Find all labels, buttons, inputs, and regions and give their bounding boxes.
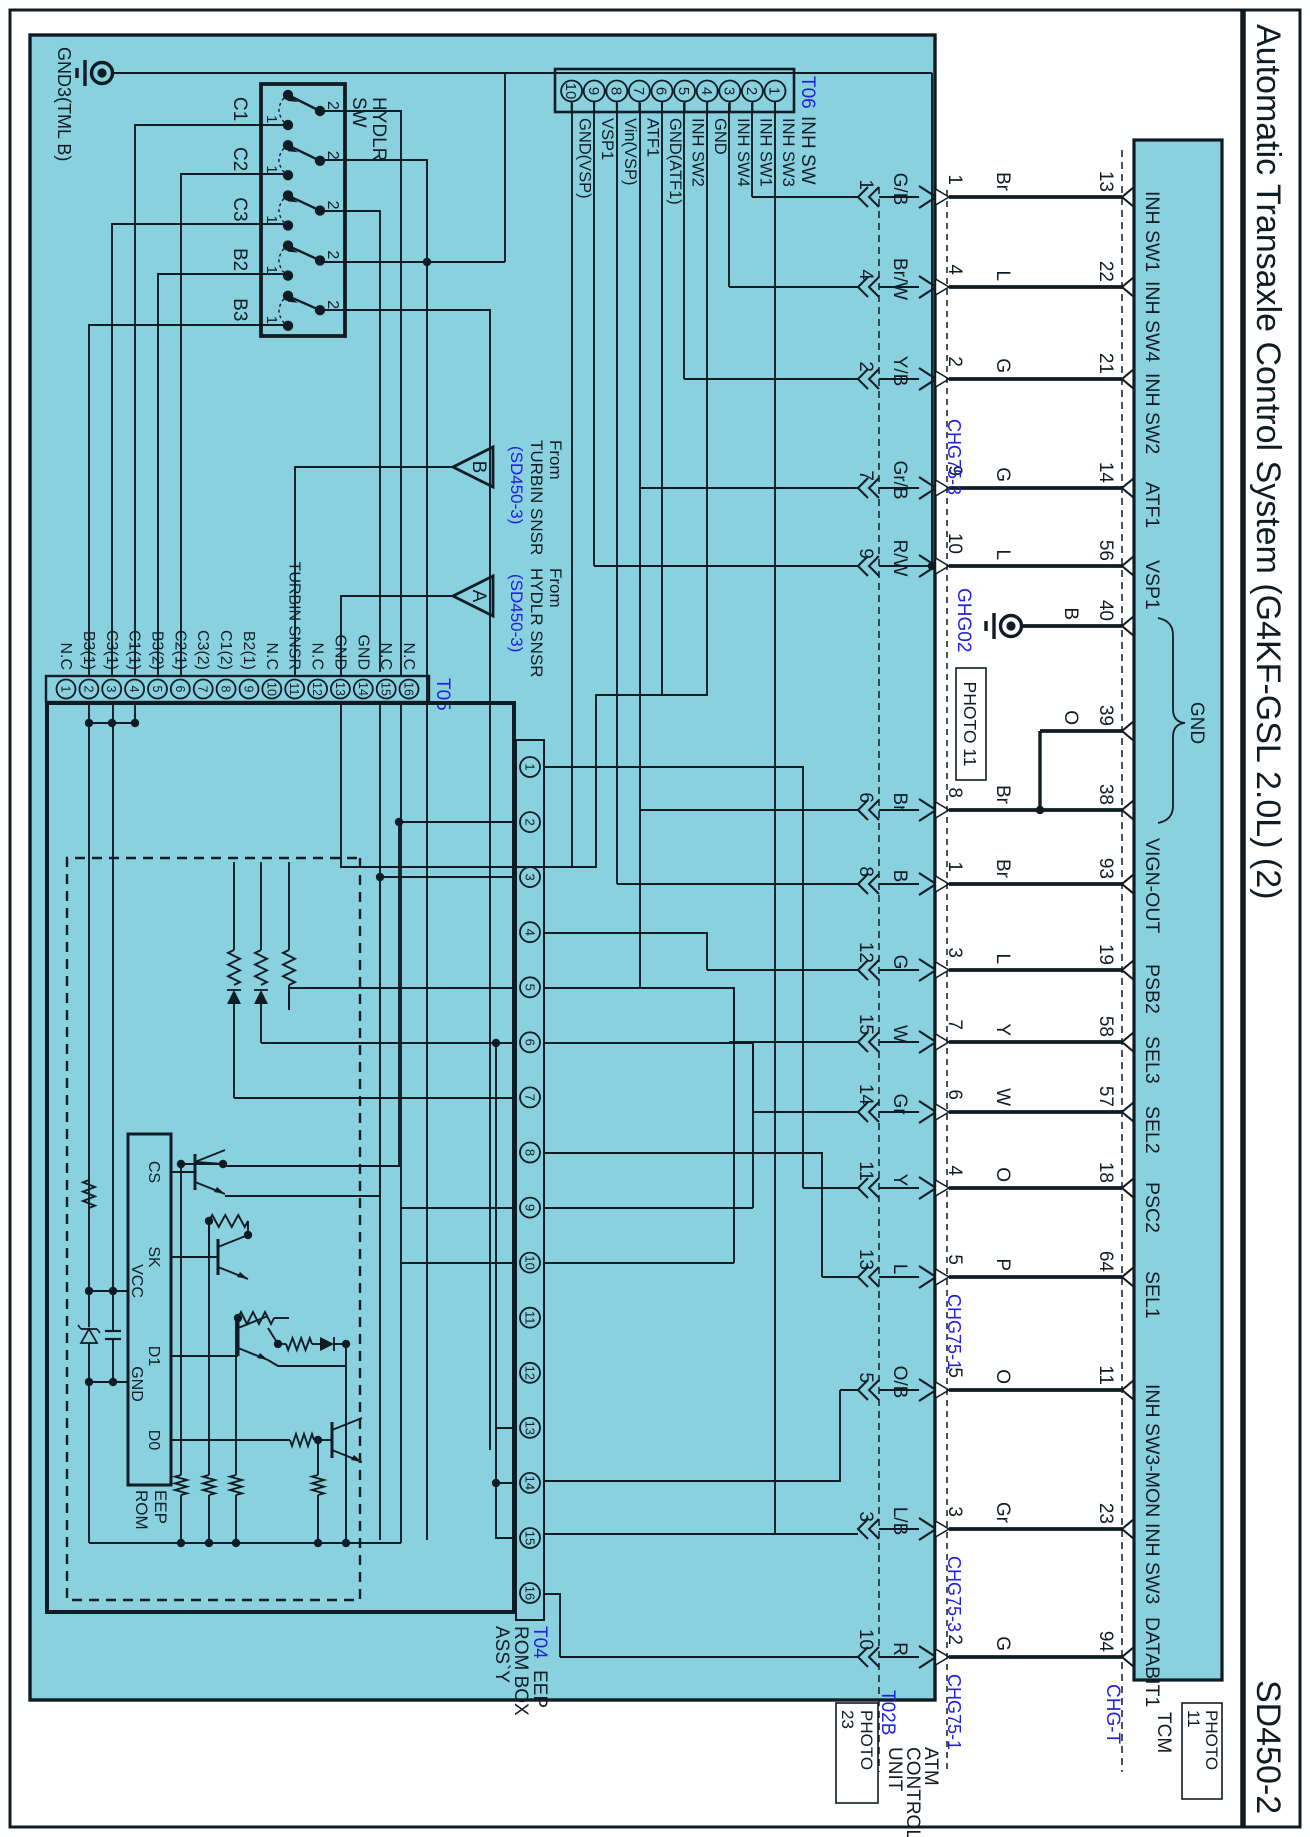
svg-text:G: G bbox=[889, 955, 910, 970]
wire INH SW3 bus bbox=[774, 103, 776, 1534]
svg-text:B2: B2 bbox=[229, 248, 250, 271]
svg-text:13: 13 bbox=[333, 682, 347, 696]
wire INH SW3-MON to T04 run bbox=[544, 1390, 840, 1481]
wire 39 to wire 38 junction bbox=[1036, 731, 1044, 814]
svg-text:7: 7 bbox=[630, 87, 647, 95]
ground label GHG02 bbox=[953, 588, 974, 652]
svg-text:11: 11 bbox=[1095, 1365, 1116, 1385]
svg-text:3: 3 bbox=[855, 1511, 876, 1522]
svg-text:INH SW1: INH SW1 bbox=[1141, 191, 1163, 272]
svg-text:2: 2 bbox=[324, 250, 341, 259]
svg-text:C1(2): C1(2) bbox=[217, 630, 234, 670]
svg-text:VCC: VCC bbox=[128, 1264, 145, 1298]
page number SD450-2 bbox=[1249, 1680, 1287, 1814]
T02B dashed line bbox=[878, 187, 880, 1772]
T05 header bbox=[432, 678, 453, 711]
wire T06 GND run bbox=[341, 103, 707, 867]
svg-text:12: 12 bbox=[522, 1366, 537, 1380]
svg-text:SEL1: SEL1 bbox=[1141, 1271, 1163, 1319]
EEP ROM chip box bbox=[128, 1134, 171, 1485]
rail B (T05 pin3 line) bbox=[112, 703, 114, 1382]
TCM-to-harness wires bbox=[949, 197, 1122, 1657]
svg-text:INH SW2: INH SW2 bbox=[689, 118, 707, 187]
svg-text:N.C: N.C bbox=[309, 642, 326, 670]
svg-text:23: 23 bbox=[1095, 1503, 1116, 1524]
svg-text:(SD450-3): (SD450-3) bbox=[507, 574, 526, 652]
svg-text:1: 1 bbox=[263, 316, 280, 324]
svg-text:11: 11 bbox=[287, 683, 301, 696]
svg-text:Y: Y bbox=[889, 1174, 910, 1187]
svg-text:CHG-T: CHG-T bbox=[1102, 1684, 1123, 1745]
svg-text:21: 21 bbox=[1095, 353, 1116, 374]
svg-text:3: 3 bbox=[104, 686, 118, 693]
svg-text:Vin(VSP): Vin(VSP) bbox=[621, 118, 639, 186]
svg-text:L: L bbox=[992, 549, 1013, 560]
TCM pin function labels bbox=[1141, 191, 1163, 1707]
resistor R7 on rail A bbox=[83, 1180, 95, 1208]
svg-text:58: 58 bbox=[1095, 1016, 1116, 1037]
wire PSB2 to T04 pin4 bbox=[544, 933, 707, 970]
svg-text:O: O bbox=[992, 1369, 1013, 1384]
svg-text:P: P bbox=[992, 1258, 1013, 1271]
svg-text:From: From bbox=[546, 440, 565, 480]
HYDLR SW box bbox=[261, 84, 345, 336]
svg-text:94: 94 bbox=[1095, 1631, 1116, 1653]
connector label CHG-T bbox=[1102, 1684, 1123, 1745]
svg-text:22: 22 bbox=[1095, 261, 1116, 282]
wire INH SW1 run bbox=[751, 103, 753, 197]
rail D0 pulldown bbox=[312, 1440, 324, 1547]
svg-text:R/W: R/W bbox=[889, 540, 910, 577]
svg-text:2: 2 bbox=[324, 151, 341, 160]
svg-text:11: 11 bbox=[1184, 1710, 1203, 1728]
svg-text:C3: C3 bbox=[229, 197, 250, 221]
svg-text:10: 10 bbox=[264, 682, 278, 696]
svg-text:6: 6 bbox=[855, 792, 876, 803]
svg-text:38: 38 bbox=[1095, 784, 1116, 805]
svg-text:N.C: N.C bbox=[263, 642, 280, 670]
svg-text:2: 2 bbox=[522, 818, 537, 825]
svg-text:1: 1 bbox=[263, 215, 280, 223]
svg-text:Y/B: Y/B bbox=[889, 356, 910, 387]
svg-text:ATF1: ATF1 bbox=[1141, 482, 1163, 528]
T05 pin4 internal stub bbox=[134, 703, 136, 723]
wire GND(VSP) run bbox=[571, 103, 573, 867]
HYDLR SW B2 pin2 wire bbox=[322, 261, 505, 263]
svg-text:VIGN-OUT: VIGN-OUT bbox=[1141, 838, 1163, 933]
wire color codes (TCM side) bbox=[992, 172, 1081, 1651]
HYDLR SW C3 pin2 wire bbox=[325, 211, 380, 1540]
svg-text:D1: D1 bbox=[145, 1346, 162, 1367]
svg-text:10: 10 bbox=[522, 1255, 537, 1269]
svg-text:INH SW4: INH SW4 bbox=[734, 118, 752, 187]
svg-text:39: 39 bbox=[1095, 705, 1116, 726]
photo reference 11 box bbox=[956, 668, 986, 780]
wire GND(ATF1) run bbox=[661, 103, 663, 695]
svg-text:1: 1 bbox=[522, 763, 537, 770]
svg-text:G: G bbox=[992, 358, 1013, 373]
svg-text:PHOTO: PHOTO bbox=[1202, 1710, 1221, 1770]
svg-text:12: 12 bbox=[855, 942, 876, 963]
svg-text:3: 3 bbox=[522, 873, 537, 880]
svg-text:T05: T05 bbox=[432, 678, 453, 711]
triangle B labels bbox=[507, 440, 565, 555]
svg-text:SK: SK bbox=[145, 1246, 162, 1268]
svg-text:2: 2 bbox=[743, 87, 760, 95]
wire Vin(VSP) run bbox=[616, 103, 618, 884]
svg-text:9: 9 bbox=[242, 686, 256, 693]
triangle B wire bbox=[295, 467, 453, 676]
T06 connector box bbox=[555, 69, 794, 112]
svg-text:GND: GND bbox=[1186, 702, 1207, 744]
svg-text:GND: GND bbox=[711, 118, 729, 155]
GND3 net wiring bbox=[113, 73, 936, 570]
ground label GND3(TML B) bbox=[54, 47, 74, 161]
svg-text:6: 6 bbox=[522, 1039, 537, 1046]
capacitor C1 bbox=[105, 1331, 121, 1339]
wire VSP1 run bbox=[593, 103, 595, 566]
svg-text:O: O bbox=[992, 1167, 1013, 1182]
svg-text:14: 14 bbox=[356, 682, 370, 696]
Q3 emitter line bbox=[268, 1360, 346, 1366]
svg-text:3: 3 bbox=[720, 87, 737, 95]
bus line bbox=[89, 1542, 401, 1544]
EEPROM dashed enclosure bbox=[67, 858, 360, 1600]
wire ATF1 / VIGN run bbox=[639, 103, 641, 988]
wire SEL1 to T04 pin8 bbox=[544, 1153, 822, 1277]
svg-text:SD450-2: SD450-2 bbox=[1249, 1680, 1287, 1814]
svg-text:PSB2: PSB2 bbox=[1141, 964, 1163, 1014]
svg-text:2: 2 bbox=[855, 361, 876, 372]
triangle A wire bbox=[341, 596, 453, 676]
svg-text:13: 13 bbox=[855, 1249, 876, 1270]
svg-text:TURBIN SNSR: TURBIN SNSR bbox=[527, 440, 546, 555]
T04 pin2 internal drop bbox=[225, 818, 516, 1166]
svg-text:INH SW: INH SW bbox=[797, 116, 818, 185]
TCM GND group brace bbox=[1158, 618, 1207, 823]
rail A (T05 pin2 line) bbox=[88, 703, 90, 1543]
T04 pin9 internal drop bbox=[401, 1207, 516, 1209]
Q3 base resistor bbox=[234, 1312, 289, 1324]
svg-text:PHOTO: PHOTO bbox=[857, 1710, 876, 1770]
svg-text:Br: Br bbox=[992, 859, 1013, 879]
svg-text:ROM BOX: ROM BOX bbox=[510, 1626, 531, 1716]
svg-text:1: 1 bbox=[855, 179, 876, 190]
photo reference 23 box bbox=[836, 1703, 878, 1803]
transistor Q3 (D1) bbox=[171, 1316, 282, 1360]
HYDLR SW label bbox=[348, 97, 389, 161]
svg-text:O: O bbox=[1060, 710, 1081, 725]
HYDLR SW switches bbox=[229, 90, 341, 331]
svg-text:A: A bbox=[468, 590, 489, 603]
svg-text:1: 1 bbox=[944, 174, 965, 185]
connector label CHG75-1 (bottom) bbox=[944, 1674, 964, 1750]
svg-text:1: 1 bbox=[766, 87, 783, 95]
svg-text:L/B: L/B bbox=[889, 1507, 910, 1536]
GND pin stub bbox=[85, 1378, 128, 1386]
wire SEL3 to T04 pin5 bbox=[544, 988, 734, 1263]
svg-text:2: 2 bbox=[324, 101, 341, 110]
svg-text:16: 16 bbox=[402, 682, 416, 696]
svg-text:L: L bbox=[992, 270, 1013, 281]
svg-text:9: 9 bbox=[585, 87, 602, 95]
rail CS pulldown bbox=[175, 1160, 225, 1547]
sense resistors and diodes bbox=[227, 862, 295, 1098]
svg-text:10: 10 bbox=[562, 83, 579, 100]
transistor Q1 (CS) bbox=[171, 1150, 227, 1194]
svg-text:8: 8 bbox=[219, 686, 233, 693]
svg-text:15: 15 bbox=[855, 1014, 876, 1035]
T04 pin6 internal drop bbox=[261, 1039, 516, 1047]
harness field (cyan) bbox=[30, 35, 935, 1700]
svg-text:B3(2): B3(2) bbox=[148, 631, 165, 670]
svg-text:SW: SW bbox=[348, 97, 369, 128]
T02B connector chevrons and wire codes bbox=[855, 173, 910, 1667]
HYDLR SW C2 pin2 wire bbox=[325, 160, 431, 1540]
svg-text:GND: GND bbox=[331, 634, 348, 670]
svg-text:13: 13 bbox=[1095, 171, 1116, 192]
T04 pin10 internal drop bbox=[401, 1262, 516, 1264]
svg-text:O/B: O/B bbox=[889, 1366, 910, 1399]
svg-text:2: 2 bbox=[81, 686, 95, 693]
svg-text:L: L bbox=[889, 1264, 910, 1275]
svg-text:Br: Br bbox=[992, 785, 1013, 805]
svg-text:8: 8 bbox=[855, 866, 876, 877]
svg-text:INH SW2: INH SW2 bbox=[1141, 373, 1163, 454]
off-page triangle A bbox=[453, 576, 493, 616]
svg-text:ROM: ROM bbox=[132, 1490, 151, 1530]
svg-text:5: 5 bbox=[675, 87, 692, 95]
svg-text:57: 57 bbox=[1095, 1086, 1116, 1107]
wire INH SW4 run bbox=[728, 103, 730, 287]
svg-text:PHOTO 11: PHOTO 11 bbox=[960, 682, 980, 767]
svg-text:B: B bbox=[1060, 607, 1081, 620]
svg-text:Gr: Gr bbox=[992, 1502, 1013, 1524]
T04 pins 13-15 internal bridge bbox=[492, 1428, 516, 1538]
off-page triangle B bbox=[453, 447, 493, 487]
svg-text:Gr/B: Gr/B bbox=[889, 460, 910, 499]
TCM connector box bbox=[1134, 140, 1222, 1680]
svg-text:DATABIT1: DATABIT1 bbox=[1141, 1617, 1163, 1707]
connector label CHG75-3 (upper) bbox=[944, 419, 964, 495]
svg-text:14: 14 bbox=[1095, 462, 1116, 484]
svg-text:D0: D0 bbox=[145, 1430, 162, 1451]
svg-text:GND: GND bbox=[354, 634, 371, 670]
T05 connector box bbox=[46, 676, 429, 702]
HYDLR SW pin1 wires bbox=[89, 125, 283, 676]
svg-text:From: From bbox=[546, 568, 565, 608]
connector label CHG75-3 (lower) bbox=[944, 1556, 964, 1632]
svg-text:7: 7 bbox=[196, 686, 210, 693]
svg-text:G/B: G/B bbox=[889, 173, 910, 206]
title text bbox=[1249, 24, 1287, 899]
T06 pins and labels bbox=[561, 81, 797, 205]
T04 label block bbox=[491, 1626, 550, 1716]
wire INH SW2 run bbox=[683, 103, 685, 379]
svg-text:40: 40 bbox=[1095, 600, 1116, 621]
T06 header bbox=[797, 76, 818, 185]
HYDLR SW B3 pin2 wire bbox=[325, 310, 490, 1450]
svg-text:13: 13 bbox=[522, 1421, 537, 1435]
resistor R6 (D0) bbox=[171, 1434, 322, 1446]
HYDLR SW C1 pin2 wire bbox=[325, 111, 401, 676]
svg-text:HYDLR: HYDLR bbox=[368, 97, 389, 161]
harness edge connector chevrons bbox=[919, 174, 965, 1668]
svg-text:5: 5 bbox=[522, 984, 537, 991]
svg-text:Br: Br bbox=[992, 172, 1013, 192]
svg-text:B2(1): B2(1) bbox=[240, 631, 257, 670]
harness wire drops bbox=[544, 197, 858, 1657]
svg-text:5: 5 bbox=[150, 686, 164, 693]
TCM pin numbers bbox=[1095, 171, 1116, 1653]
T04 strip pins bbox=[520, 757, 540, 1603]
svg-text:11: 11 bbox=[522, 1311, 537, 1325]
TCM unit label bbox=[1153, 1712, 1174, 1753]
ground GND3 symbol bbox=[77, 60, 113, 86]
T04 connector strip bbox=[516, 740, 544, 1620]
svg-text:B: B bbox=[468, 461, 489, 474]
svg-text:L: L bbox=[992, 953, 1013, 964]
svg-text:(SD450-3): (SD450-3) bbox=[507, 446, 526, 524]
svg-text:UNIT: UNIT bbox=[884, 1747, 905, 1792]
svg-text:SEL3: SEL3 bbox=[1141, 1036, 1163, 1084]
connector label CHG75-1 (mid) bbox=[944, 1294, 964, 1370]
svg-text:PSC2: PSC2 bbox=[1141, 1182, 1163, 1233]
svg-text:GND: GND bbox=[128, 1366, 145, 1402]
svg-text:N.C: N.C bbox=[57, 642, 74, 670]
svg-text:1: 1 bbox=[59, 686, 73, 693]
svg-text:Automatic Transaxle Control Sy: Automatic Transaxle Control System (G4KF… bbox=[1249, 24, 1287, 899]
svg-text:INH SW4: INH SW4 bbox=[1141, 281, 1163, 362]
svg-text:T06: T06 bbox=[797, 76, 818, 109]
svg-text:93: 93 bbox=[1095, 858, 1116, 879]
svg-text:10: 10 bbox=[855, 1629, 876, 1650]
svg-text:T02B: T02B bbox=[877, 1690, 898, 1735]
ATM control unit label bbox=[884, 1747, 941, 1837]
svg-text:15: 15 bbox=[522, 1531, 537, 1545]
svg-text:INH SW3: INH SW3 bbox=[779, 118, 797, 187]
svg-text:N.C: N.C bbox=[400, 642, 417, 670]
svg-text:4: 4 bbox=[698, 87, 715, 95]
svg-text:7: 7 bbox=[522, 1094, 537, 1101]
TCM pin chevrons bbox=[1122, 187, 1134, 1667]
svg-text:W: W bbox=[889, 1025, 910, 1043]
svg-text:ASS`Y: ASS`Y bbox=[491, 1626, 512, 1683]
connector label T02B bbox=[877, 1690, 898, 1735]
svg-text:9: 9 bbox=[522, 1204, 537, 1211]
svg-text:EEP: EEP bbox=[151, 1490, 170, 1524]
T04 pin9 external stub bbox=[544, 1207, 753, 1209]
svg-text:G: G bbox=[992, 467, 1013, 482]
svg-text:GND(ATF1): GND(ATF1) bbox=[666, 118, 684, 205]
transistor Q4 (D0) bbox=[318, 1418, 362, 1462]
resistor R5 and diode D5 (D1 chain) bbox=[278, 1337, 350, 1351]
svg-text:64: 64 bbox=[1095, 1251, 1116, 1273]
svg-text:2: 2 bbox=[324, 201, 341, 210]
CHG75 edge dashed line bbox=[946, 190, 948, 1772]
svg-text:INH SW3-MON: INH SW3-MON bbox=[1141, 1384, 1163, 1517]
ground GHG02 symbol bbox=[986, 613, 1022, 639]
svg-text:23: 23 bbox=[838, 1710, 857, 1729]
svg-text:EEP: EEP bbox=[529, 1670, 550, 1708]
Q4 emitter line bbox=[346, 1344, 362, 1543]
T04 EEPROM box bbox=[47, 703, 514, 1612]
EEP ROM chip labels bbox=[128, 1161, 170, 1530]
svg-text:1: 1 bbox=[263, 165, 280, 173]
svg-text:CS: CS bbox=[145, 1161, 162, 1183]
svg-text:15: 15 bbox=[379, 682, 393, 696]
svg-text:14: 14 bbox=[522, 1476, 537, 1490]
svg-text:INH SW3: INH SW3 bbox=[1141, 1523, 1163, 1604]
svg-text:8: 8 bbox=[607, 87, 624, 95]
svg-text:1: 1 bbox=[263, 115, 280, 123]
rail D1 pulldown bbox=[230, 1318, 242, 1547]
photo reference 11 box (TCM) bbox=[1182, 1703, 1222, 1799]
triangle A labels bbox=[507, 568, 565, 678]
svg-text:6: 6 bbox=[173, 686, 187, 693]
svg-text:Br/W: Br/W bbox=[889, 258, 910, 300]
zener diode Z1 bbox=[78, 1325, 100, 1343]
svg-text:W: W bbox=[992, 1088, 1013, 1106]
bus top link bbox=[342, 703, 401, 1547]
svg-text:11: 11 bbox=[855, 1161, 876, 1181]
T04 pin3 internal drop bbox=[225, 873, 516, 1196]
T04 pin7 internal drop bbox=[234, 1097, 516, 1099]
svg-text:6: 6 bbox=[653, 87, 670, 95]
svg-text:Y: Y bbox=[992, 1023, 1013, 1036]
svg-text:14: 14 bbox=[855, 1084, 876, 1106]
svg-text:G: G bbox=[992, 1636, 1013, 1651]
svg-text:SEL2: SEL2 bbox=[1141, 1106, 1163, 1154]
wire VSP1 edge segment bbox=[919, 565, 932, 567]
svg-text:B: B bbox=[889, 870, 910, 883]
svg-text:C2: C2 bbox=[229, 147, 250, 171]
TCM edge dashed line bbox=[1121, 150, 1123, 1772]
svg-text:7: 7 bbox=[855, 470, 876, 481]
svg-text:T04: T04 bbox=[529, 1626, 550, 1659]
svg-text:B3: B3 bbox=[229, 298, 250, 321]
svg-text:ATF1: ATF1 bbox=[643, 118, 661, 157]
svg-text:4: 4 bbox=[855, 269, 876, 280]
svg-text:VSP1: VSP1 bbox=[1141, 560, 1163, 610]
svg-text:16: 16 bbox=[522, 1586, 537, 1600]
transistor Q2 (SK) bbox=[171, 1215, 252, 1279]
svg-text:8: 8 bbox=[522, 1149, 537, 1156]
svg-text:R: R bbox=[889, 1642, 910, 1656]
edge-to-T02B wire segments bbox=[879, 197, 919, 1657]
svg-text:5: 5 bbox=[855, 1372, 876, 1383]
svg-text:1: 1 bbox=[263, 266, 280, 274]
svg-text:C3(2): C3(2) bbox=[194, 630, 211, 670]
svg-text:9: 9 bbox=[855, 548, 876, 559]
svg-text:C2(1): C2(1) bbox=[171, 630, 188, 670]
svg-text:INH SW1: INH SW1 bbox=[756, 118, 774, 187]
svg-text:VSP1: VSP1 bbox=[598, 118, 616, 160]
wire PSC2 to T04 pin1 bbox=[544, 767, 803, 1188]
svg-text:GHG02: GHG02 bbox=[953, 588, 974, 652]
svg-text:12: 12 bbox=[310, 682, 324, 696]
svg-text:C1: C1 bbox=[229, 97, 250, 121]
svg-text:18: 18 bbox=[1095, 1162, 1116, 1183]
rail SK pulldown bbox=[203, 1221, 215, 1547]
svg-text:56: 56 bbox=[1095, 540, 1116, 561]
svg-text:TCM: TCM bbox=[1153, 1712, 1174, 1753]
svg-text:4: 4 bbox=[127, 686, 141, 693]
T05 pins 2-4 internal bridge bbox=[85, 719, 139, 727]
T04 pin6 cross link bbox=[495, 1043, 497, 1428]
svg-text:HYDLR SNSR: HYDLR SNSR bbox=[527, 568, 546, 678]
wire SEL2 to T04 pin6 bbox=[544, 1043, 753, 1208]
